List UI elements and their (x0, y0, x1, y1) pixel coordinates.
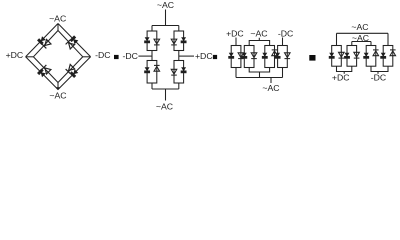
wire stub right vertex (83, 56, 91, 58)
wire inner rail stub right (370, 42, 372, 46)
diode r4 right (390, 50, 396, 56)
svg-text:-DC: -DC (95, 50, 110, 60)
svg-text:-DC: -DC (278, 29, 293, 39)
svg-text:~AC: ~AC (49, 91, 66, 101)
wire +DC tap (179, 55, 194, 57)
svg-text:~AC: ~AC (49, 14, 66, 24)
wire stub left vertex (26, 56, 34, 58)
diode lower-right inner arm (66, 64, 75, 73)
diode r1 right (238, 53, 244, 59)
equals separator 2 (213, 55, 217, 59)
wire bottom rail (236, 77, 283, 79)
wire inner AC rail (352, 41, 371, 43)
wire b1 top stub (235, 38, 237, 46)
filled diode r1 left (329, 53, 334, 58)
wire b3 bottom hook (260, 68, 270, 78)
filled diode r2 left (242, 53, 247, 58)
filled diode TL left side (145, 38, 150, 43)
wire outer diamond lower-right edge (58, 57, 91, 90)
arm rect 3 (366, 46, 376, 67)
filled diode r4 left (381, 53, 386, 58)
filled diode r1 left (229, 53, 234, 58)
equals separator 1 (114, 55, 119, 59)
wire inner diamond lower-right edge (58, 57, 83, 83)
svg-text:+DC: +DC (332, 73, 350, 83)
diode TL right side (154, 39, 160, 45)
diode r2 right (251, 53, 257, 59)
svg-text:~AC: ~AC (351, 22, 368, 32)
wire b4 bottom stub (282, 68, 284, 78)
wire outer diamond upper-right edge (58, 24, 91, 57)
wire bottom rail (152, 88, 179, 90)
arm rect 4 (278, 46, 288, 68)
diode TR left side (171, 39, 177, 45)
wire +DC tick (343, 72, 345, 74)
filled diode r3 left (364, 53, 369, 58)
svg-text:~AC: ~AC (157, 0, 174, 10)
wire stub top vertex (57, 24, 59, 31)
junction dot bottom vertex (56, 87, 60, 90)
filled diode TR right side (181, 38, 186, 43)
arm rect 1 (332, 46, 342, 67)
wire outer diamond lower-left edge (26, 57, 58, 90)
filled diode r4 left (275, 53, 280, 58)
wire stub to TL rect (151, 26, 153, 32)
wire AC top stub (165, 10, 167, 26)
wire +DC bottom U (337, 66, 352, 71)
diode r2 right (354, 52, 360, 58)
wire stub to TR rect (178, 26, 180, 32)
wire outer diamond upper-left edge (26, 24, 58, 57)
wire AC bottom stub (165, 89, 167, 101)
wire mid connector right (178, 51, 180, 61)
wire b3 top hook (259, 41, 269, 46)
diode r4 right (285, 53, 291, 59)
filled diode BL left side (145, 68, 150, 73)
arm rect top-left (147, 31, 157, 51)
diode BR left side (171, 69, 177, 75)
wire outer rail stub left (336, 33, 338, 45)
filled diode BR right side (181, 68, 186, 73)
wire AC bottom tick (270, 78, 272, 84)
svg-text:~AC: ~AC (250, 29, 267, 39)
wire stub from BL rect (151, 83, 153, 89)
diode BL right side (up) (154, 65, 160, 71)
arm rect bottom-left (147, 61, 157, 84)
filled diode r3 left (262, 53, 267, 58)
wire inner diamond upper-right edge (58, 31, 83, 57)
arm rect 1 (231, 46, 241, 68)
wire stub bottom vertex (57, 83, 59, 90)
svg-text:+DC: +DC (195, 51, 213, 61)
arm rect 2 (347, 46, 357, 67)
equals separator 3 (309, 55, 315, 61)
diode r3 right (up) (373, 50, 379, 56)
wire stub from BR rect (178, 83, 180, 89)
wire inner rail stub left (351, 42, 353, 46)
arm rect bottom-right (174, 61, 184, 84)
filled diode upper-left outer arm (38, 36, 46, 44)
wire inner diamond upper-left edge (33, 31, 58, 57)
arm rect top-right (174, 31, 184, 51)
wire b1 bottom stub (235, 68, 237, 78)
diode lower-left inner arm (42, 65, 51, 74)
wire -DC tick (377, 72, 379, 74)
svg-text:+DC: +DC (226, 29, 244, 39)
svg-text:-DC: -DC (371, 73, 386, 83)
diode upper-right inner arm (66, 40, 75, 49)
diode r1 right (339, 52, 345, 58)
arm rect 2 (244, 46, 254, 68)
wire top rail (152, 25, 179, 27)
svg-text:~AC: ~AC (262, 83, 279, 93)
wire mid connector left (151, 51, 153, 61)
arm rect 3 (265, 46, 275, 68)
wire inner diamond lower-left edge (33, 57, 58, 83)
wire outer rail stub right (387, 33, 389, 45)
svg-text:~AC: ~AC (156, 102, 173, 112)
wire outer AC rail (337, 32, 389, 34)
wire b4 top stub (282, 38, 284, 46)
svg-text:-DC: -DC (122, 51, 137, 61)
diode r3 right (up) (272, 50, 278, 56)
wire -DC tap (138, 55, 152, 57)
filled diode lower-left outer arm (38, 69, 46, 77)
wire b2 top hook (249, 38, 259, 46)
wire -DC bottom U (371, 66, 388, 71)
svg-text:+DC: +DC (6, 50, 24, 60)
arm rect 4 (383, 46, 393, 67)
wire b2 bottom hook (249, 68, 259, 73)
filled diode upper-right outer arm (70, 36, 78, 44)
filled diode lower-right outer arm (70, 69, 78, 77)
filled diode r2 left (345, 53, 350, 58)
diode upper-left inner arm (42, 39, 51, 48)
